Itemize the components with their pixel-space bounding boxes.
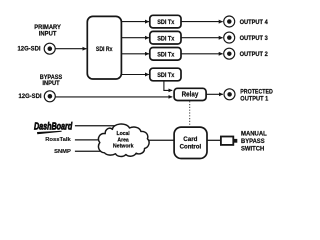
wire SDI Tx 3 to output 2 xyxy=(181,53,223,55)
connector manual bypass switch S1 xyxy=(221,137,237,145)
connector output 3 BNC xyxy=(224,32,235,43)
svg-text:SDI Rx: SDI Rx xyxy=(96,46,113,53)
wire SNMP to cloud xyxy=(75,150,108,152)
label MANUAL BYPASS SWITCH xyxy=(241,131,267,153)
block relay K1 xyxy=(174,88,206,100)
connector output 4 BNC xyxy=(224,16,235,27)
logo DashBoard xyxy=(34,121,73,134)
svg-text:SDI Tx: SDI Tx xyxy=(157,72,175,79)
cloud local area network xyxy=(98,124,149,157)
connector bypass input BNC J2 xyxy=(44,91,55,102)
wire card control to manual bypass switch xyxy=(207,139,220,141)
svg-text:12G-SDI: 12G-SDI xyxy=(18,46,41,53)
wire DashBoard to cloud xyxy=(75,125,115,127)
wire bypass input to relay xyxy=(55,96,172,98)
svg-text:Relay: Relay xyxy=(182,91,199,99)
connector primary input BNC J1 xyxy=(44,43,55,54)
svg-text:SDI Tx: SDI Tx xyxy=(157,51,175,58)
wire SDI Rx to SDI Tx 3 xyxy=(121,53,148,55)
wire SDI Tx 2 to output 3 xyxy=(181,37,223,39)
svg-text:INPUT: INPUT xyxy=(42,80,59,87)
svg-text:SDI Tx: SDI Tx xyxy=(157,19,175,26)
svg-text:MANUAL: MANUAL xyxy=(241,131,267,138)
wire SDI Tx 4 to relay xyxy=(164,81,172,91)
block SDI Tx 2 xyxy=(150,31,181,44)
svg-text:SWITCH: SWITCH xyxy=(241,146,265,153)
label PRIMARY INPUT xyxy=(34,24,61,38)
svg-text:BYPASS: BYPASS xyxy=(241,138,265,145)
connector protected output 1 BNC xyxy=(224,89,235,100)
svg-text:Network: Network xyxy=(113,144,134,150)
svg-text:Area: Area xyxy=(117,137,129,143)
connector output 2 BNC xyxy=(224,48,235,59)
wire cloud to card control xyxy=(140,139,174,141)
svg-text:OUTPUT 1: OUTPUT 1 xyxy=(240,95,268,102)
svg-text:SNMP: SNMP xyxy=(54,149,71,155)
svg-text:INPUT: INPUT xyxy=(39,30,57,37)
svg-text:Local: Local xyxy=(117,131,131,137)
wire primary input to SDI Rx xyxy=(55,48,86,50)
wire SDI Rx to SDI Tx 4 xyxy=(121,74,148,76)
svg-text:RossTalk: RossTalk xyxy=(45,137,71,143)
wire SDI Rx to SDI Tx 1 xyxy=(121,21,148,23)
svg-text:Control: Control xyxy=(180,143,202,150)
svg-text:OUTPUT 2: OUTPUT 2 xyxy=(240,51,268,58)
label PROTECTED OUTPUT 1 xyxy=(240,88,273,102)
svg-text:SDI Tx: SDI Tx xyxy=(157,35,175,42)
label BYPASS INPUT xyxy=(40,74,63,87)
wire SDI Tx 1 to output 4 xyxy=(181,21,223,23)
block SDI Tx 4 xyxy=(150,68,181,81)
wire relay to protected output xyxy=(206,93,223,95)
wire SDI Rx to SDI Tx 2 xyxy=(121,37,148,39)
svg-text:OUTPUT 4: OUTPUT 4 xyxy=(240,19,268,26)
block SDI Tx 1 xyxy=(150,15,181,28)
svg-text:DashBoard: DashBoard xyxy=(34,121,73,132)
block card control xyxy=(174,127,207,158)
wire RossTalk to cloud xyxy=(75,139,108,141)
svg-text:Card: Card xyxy=(183,136,197,143)
svg-text:OUTPUT 3: OUTPUT 3 xyxy=(240,35,268,42)
svg-text:12G-SDI: 12G-SDI xyxy=(19,93,42,100)
block SDI Rx U1 xyxy=(87,16,121,79)
block SDI Tx 3 xyxy=(150,48,181,61)
dashed control link relay to card control xyxy=(189,101,191,126)
